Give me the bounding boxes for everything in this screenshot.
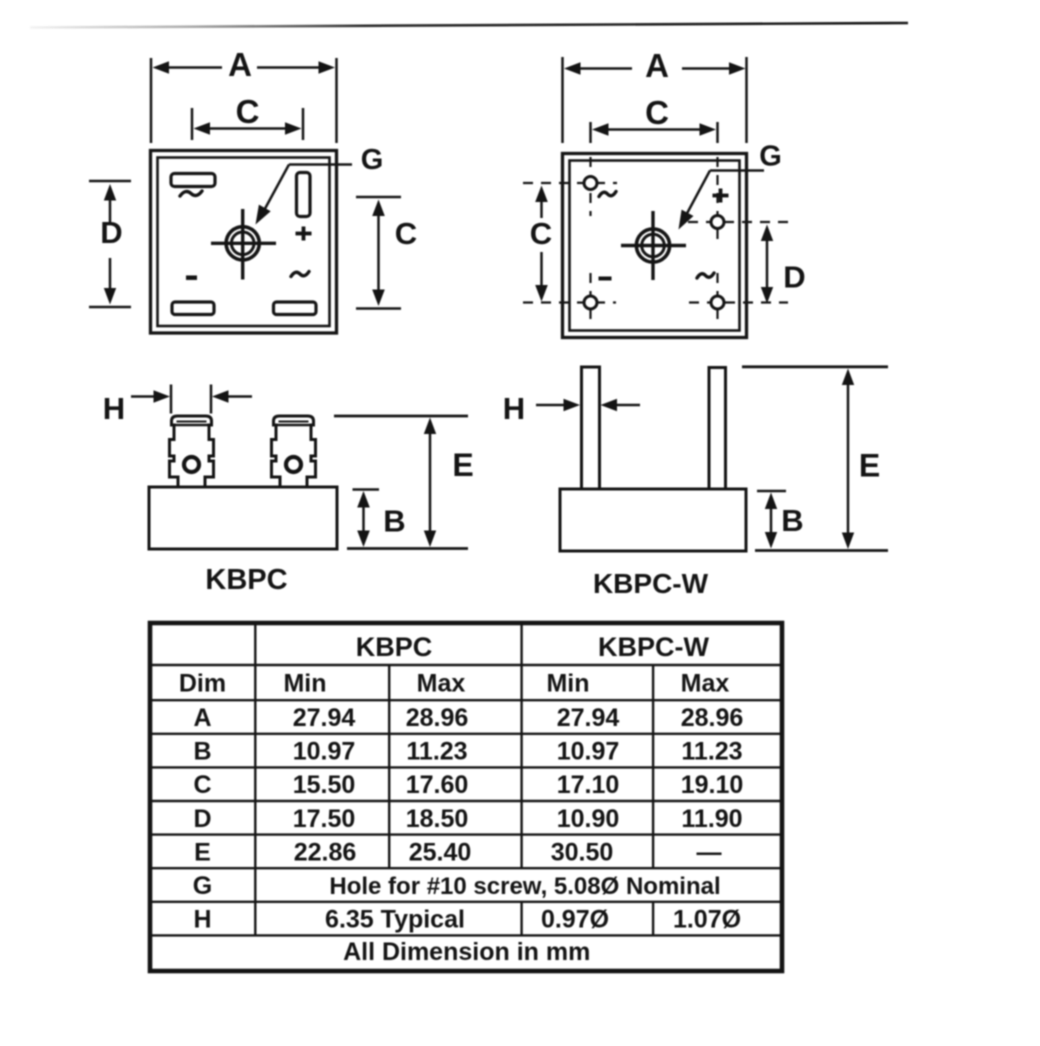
svg-text:Min: Min (283, 670, 326, 698)
svg-text:30.50: 30.50 (551, 838, 614, 866)
svg-text:11.23: 11.23 (681, 738, 742, 766)
svg-text:19.10: 19.10 (681, 771, 744, 799)
svg-text:Min: Min (546, 670, 589, 698)
svg-text:A: A (193, 704, 211, 732)
svg-text:H: H (103, 391, 125, 426)
svg-text:Dim: Dim (179, 670, 226, 698)
svg-text:18.50: 18.50 (406, 805, 469, 833)
svg-text:KBPC: KBPC (205, 564, 287, 596)
svg-text:C: C (236, 93, 260, 130)
svg-text:C: C (645, 94, 669, 131)
svg-text:25.40: 25.40 (409, 838, 472, 866)
svg-text:E: E (452, 447, 473, 483)
svg-text:—: — (697, 838, 722, 866)
svg-text:G: G (759, 141, 782, 173)
svg-text:C: C (530, 216, 552, 251)
svg-text:A: A (228, 46, 252, 83)
svg-text:Max: Max (681, 670, 730, 698)
svg-text:10.97: 10.97 (557, 738, 620, 766)
svg-text:Max: Max (417, 670, 466, 698)
svg-text:E: E (859, 448, 880, 484)
svg-text:A: A (645, 47, 669, 84)
svg-text:G: G (361, 144, 384, 176)
svg-text:G: G (193, 872, 212, 900)
svg-text:E: E (194, 838, 211, 866)
svg-text:All Dimension in mm: All Dimension in mm (343, 938, 590, 966)
svg-text:6.35 Typical: 6.35 Typical (325, 906, 465, 934)
svg-text:Hole for #10 screw, 5.08Ø Nomi: Hole for #10 screw, 5.08Ø Nominal (329, 873, 720, 900)
svg-text:0.97Ø: 0.97Ø (541, 906, 609, 934)
svg-text:17.50: 17.50 (293, 805, 356, 833)
svg-text:27.94: 27.94 (293, 704, 356, 732)
svg-text:28.96: 28.96 (681, 704, 744, 732)
svg-text:D: D (783, 260, 805, 295)
svg-text:H: H (503, 391, 525, 426)
svg-text:B: B (781, 503, 803, 538)
svg-text:C: C (395, 216, 417, 251)
svg-text:28.96: 28.96 (406, 704, 469, 732)
svg-text:10.90: 10.90 (557, 805, 620, 833)
svg-text:17.60: 17.60 (406, 771, 469, 799)
svg-text:1.07Ø: 1.07Ø (673, 906, 741, 934)
svg-text:10.97: 10.97 (293, 738, 356, 766)
svg-text:15.50: 15.50 (293, 771, 356, 799)
svg-text:11.90: 11.90 (681, 805, 742, 833)
svg-text:KBPC-W: KBPC-W (598, 632, 709, 662)
svg-text:C: C (193, 771, 211, 799)
svg-text:17.10: 17.10 (557, 771, 620, 799)
svg-text:B: B (193, 738, 211, 766)
svg-text:22.86: 22.86 (294, 838, 357, 866)
svg-text:D: D (100, 215, 122, 250)
svg-text:H: H (193, 906, 211, 934)
svg-text:27.94: 27.94 (557, 704, 620, 732)
svg-text:KBPC: KBPC (356, 632, 433, 662)
svg-text:11.23: 11.23 (406, 738, 467, 766)
svg-text:KBPC-W: KBPC-W (593, 568, 709, 599)
svg-text:D: D (193, 805, 211, 833)
svg-text:B: B (383, 504, 405, 539)
